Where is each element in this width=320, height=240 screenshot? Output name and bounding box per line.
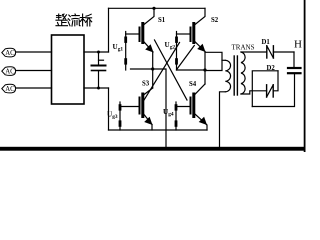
svg-text:S3: S3 — [142, 81, 150, 88]
output capacitor — [288, 52, 301, 73]
label 整流桥 : char 流 — [68, 14, 80, 26]
right border line — [304, 0, 306, 152]
svg-text:S4: S4 — [189, 81, 197, 88]
svg-text:TRANS: TRANS — [232, 44, 255, 52]
node B junction — [203, 68, 206, 71]
junction node cap bottom — [97, 87, 100, 90]
diode D2 (pointing left) — [267, 85, 274, 97]
transistor S2 (IGBT) — [177, 8, 206, 84]
bus capacitor C (polarized) — [92, 52, 106, 88]
svg-text:AC: AC — [5, 68, 15, 75]
wire node A to primary-return riser — [153, 69, 166, 147]
wire node B to transformer primary (step) — [205, 52, 222, 70]
label 整流桥 : char 桥 — [80, 14, 92, 26]
wire output return corner — [252, 71, 278, 107]
wire AC3 to rectifier — [17, 87, 52, 89]
svg-text:D2: D2 — [267, 65, 276, 72]
label 整流桥 (drawn strokes) : char 整 — [56, 14, 68, 26]
junction node cap top — [97, 51, 100, 54]
wire: left DC- drop — [108, 88, 110, 130]
wire Ug2 reference to emitter of S2 — [177, 46, 194, 70]
wire output bottom — [252, 74, 294, 107]
rectifier bridge box — [52, 35, 85, 104]
AC source terminal 2 — [2, 67, 16, 76]
AC source terminal 3 — [2, 84, 16, 93]
crossover wire A (S1 side to S4 gate) — [155, 40, 188, 100]
svg-text:AC: AC — [5, 50, 15, 57]
crossover wire B (node A to S3) — [144, 43, 180, 101]
wire primary bottom to ground bus — [220, 92, 226, 147]
wire return to D2 anode — [273, 71, 278, 91]
wire D1 to output cap — [273, 51, 294, 53]
wire secondary top to D1 — [241, 51, 267, 53]
transformer TRANS : primary winding — [225, 60, 230, 92]
junction node top rail / S1 collector — [152, 7, 155, 10]
gate drive Ug4 (arrow line) — [175, 102, 178, 130]
wire AC2 to rectifier — [17, 70, 52, 72]
wire: left DC+ riser — [108, 8, 110, 52]
wire Ug2 bottom to node B — [177, 69, 206, 71]
wire: top DC rail — [109, 7, 206, 9]
wire AC1 to rectifier — [17, 51, 52, 53]
gate drive Ug1 (arrow line) — [124, 32, 127, 71]
gate drive Ug2 (arrow line) — [175, 32, 178, 71]
transistor S4 (IGBT) — [176, 84, 207, 130]
wire D2 cathode to secondary bottom — [241, 91, 267, 94]
transformer core — [233, 56, 235, 95]
DC+ wire (box to bridge) — [84, 51, 109, 53]
svg-text:S1: S1 — [158, 17, 166, 24]
svg-text:S2: S2 — [211, 17, 219, 24]
svg-text:AC: AC — [5, 86, 15, 93]
node A junction — [151, 67, 154, 70]
transformer secondary winding — [241, 52, 245, 94]
AC source terminal 1 — [2, 48, 16, 57]
ground bus bar (thick) — [0, 147, 306, 151]
diode D1 — [267, 46, 274, 58]
DC- wire (box to bridge) — [84, 87, 109, 89]
wire node A left stub — [131, 68, 153, 70]
gate drive Ug3 (arrow line) — [119, 102, 122, 130]
transistor S3 (IGBT) — [120, 88, 153, 130]
svg-text:H: H — [294, 39, 302, 51]
svg-text:D1: D1 — [262, 39, 271, 46]
wire: bottom DC rail — [109, 129, 208, 131]
transistor S1 (IGBT) — [126, 8, 154, 88]
